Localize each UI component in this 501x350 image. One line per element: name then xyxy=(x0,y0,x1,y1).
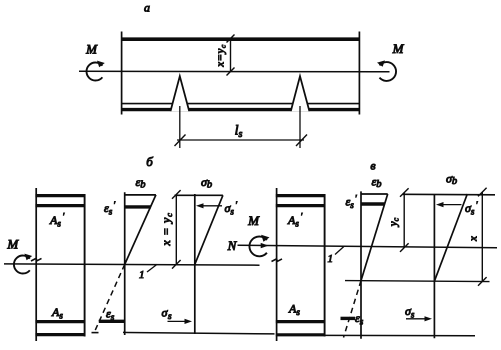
beam bottom thick line xyxy=(121,108,360,111)
section V right edge xyxy=(324,194,326,337)
slash tick yc bottom V xyxy=(400,243,409,252)
slash tick stress dim top B xyxy=(172,190,181,199)
dashed end tick B xyxy=(92,332,99,334)
sigma_s arrow V xyxy=(406,318,429,320)
svg-text:x = yc: x = yc xyxy=(159,212,174,246)
dimension line ls xyxy=(177,139,304,141)
svg-text:M: M xyxy=(392,41,405,56)
section V top edge thick xyxy=(276,194,326,197)
strain eps_s band B xyxy=(99,320,125,323)
strain top line V xyxy=(361,193,388,195)
stress top line V xyxy=(403,193,495,196)
svg-text:б: б xyxy=(146,154,153,169)
break mark on section B edge xyxy=(31,258,42,261)
dim line yc V xyxy=(403,193,405,248)
slash tick yc top V xyxy=(400,188,409,197)
section B bottom edge thick xyxy=(35,333,85,336)
section B bottom rebar band As xyxy=(35,320,85,323)
extension line crack 2 xyxy=(299,106,301,148)
break mark on section V edge xyxy=(272,259,283,262)
section V bottom rebar band As xyxy=(276,320,326,323)
bottom connector line B xyxy=(123,332,275,334)
section V left edge xyxy=(276,188,278,341)
axis line B xyxy=(4,264,260,265)
slash tick x bottom V xyxy=(478,277,487,286)
strain axis B xyxy=(124,192,126,335)
svg-text:M: M xyxy=(6,237,19,252)
svg-text:M: M xyxy=(247,213,260,228)
extension line crack 1 xyxy=(179,106,181,148)
rotated label x V xyxy=(468,236,480,242)
svg-text:N: N xyxy=(227,238,238,253)
strain slant dashed V xyxy=(344,281,362,338)
beam left edge xyxy=(121,32,123,115)
rotated label x=yc B xyxy=(159,212,174,246)
svg-text:1: 1 xyxy=(328,253,334,265)
strain axis V xyxy=(360,191,362,338)
moment M arrow B xyxy=(14,256,30,274)
svg-text:а: а xyxy=(144,1,150,15)
reinforcement thin line xyxy=(121,103,173,105)
strain top line B xyxy=(125,194,156,196)
N arrowhead xyxy=(261,243,269,248)
sigma_s arrow B xyxy=(168,320,189,322)
section B right edge xyxy=(84,194,86,337)
moment M arrow right xyxy=(380,62,397,81)
beam right edge xyxy=(358,32,360,115)
crack 1 xyxy=(171,76,190,111)
dim line x=yc top xyxy=(230,38,232,72)
slash tick bottom xyxy=(227,68,235,76)
section B top edge thick xyxy=(35,194,85,197)
bottom connector line V xyxy=(326,334,476,336)
neutral axis line V xyxy=(345,281,490,282)
rotated label x=yc top xyxy=(215,44,228,68)
reinforcement thin line right xyxy=(307,103,360,105)
section V top rebar band As' xyxy=(276,204,326,207)
slash tick top xyxy=(227,35,235,43)
beam top flange thick line xyxy=(121,37,360,41)
svg-text:1: 1 xyxy=(139,269,145,281)
beam axis line through M arrows xyxy=(79,70,390,73)
stress axis B xyxy=(194,194,196,334)
strain slant solid V xyxy=(361,194,388,281)
svg-text:x: x xyxy=(468,236,480,242)
axis line V with N force xyxy=(238,245,498,248)
section B left edge xyxy=(35,188,37,341)
moment M arrow V xyxy=(249,236,266,256)
strain eps_s' band V xyxy=(361,202,385,205)
stress slant V xyxy=(434,194,467,281)
section B top rebar band As' xyxy=(35,204,85,207)
section V bottom edge thick xyxy=(276,333,326,336)
strain slant dashed B xyxy=(94,264,124,332)
crack 2 xyxy=(291,76,310,111)
stress slant B xyxy=(195,195,223,264)
svg-text:M: M xyxy=(85,42,98,57)
svg-text:в: в xyxy=(370,159,375,173)
rotated label yc V xyxy=(387,217,400,227)
stress top line B xyxy=(175,194,223,196)
slash tick ls left xyxy=(175,135,186,147)
slash tick ls right xyxy=(296,135,307,147)
reinforcement thin line mid xyxy=(187,103,294,105)
sigma_s' arrow V xyxy=(439,204,462,206)
strain eps_s band V xyxy=(341,317,356,320)
stress axis V xyxy=(433,194,435,338)
strain slant solid B xyxy=(125,195,156,265)
sigma_s' arrow B xyxy=(199,205,222,207)
moment M arrow left xyxy=(87,63,103,81)
stress dim line B xyxy=(175,195,177,265)
strain eps_s' band B xyxy=(125,205,151,208)
slash tick stress dim bottom B xyxy=(172,260,181,269)
dim line x V xyxy=(481,192,483,281)
slash tick x top V xyxy=(478,188,487,197)
